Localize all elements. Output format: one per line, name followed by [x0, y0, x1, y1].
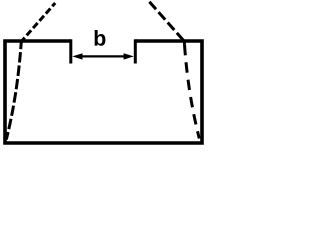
left arrowhead — [72, 53, 82, 59]
block outline (open-top rectangle with gap b) — [5, 41, 202, 143]
right crossing dash stub — [183, 41, 186, 45]
left inner dashed line — [6, 42, 21, 140]
left notch vertical — [69, 39, 72, 63]
left outer dashed line — [21, 3, 55, 42]
right notch vertical — [134, 39, 137, 63]
dimension arrow shaft — [78, 55, 128, 57]
right inner dashed line — [184, 41, 199, 138]
label b — [95, 30, 106, 46]
right outer dashed line — [149, 2, 184, 42]
right arrowhead — [124, 53, 134, 59]
